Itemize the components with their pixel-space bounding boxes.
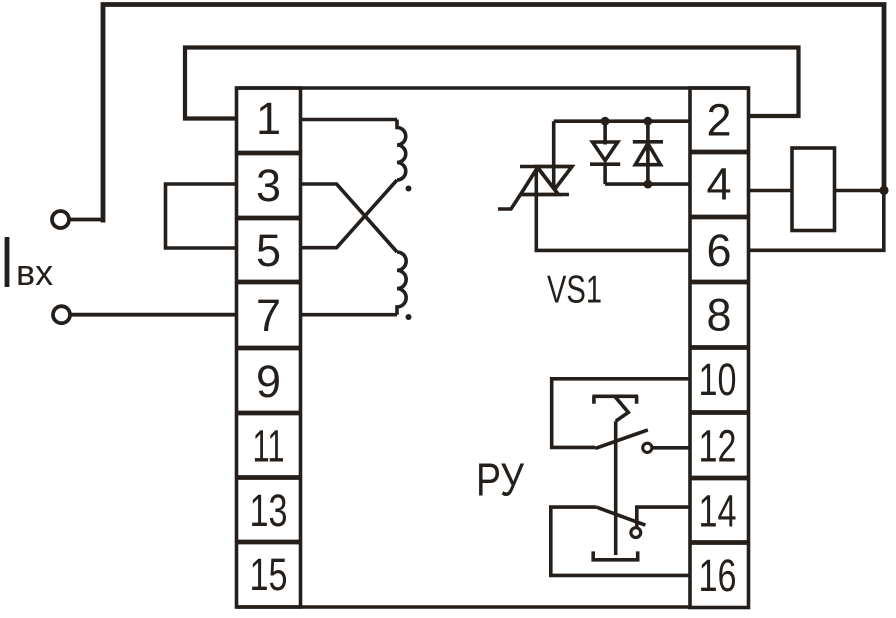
- cell separator 3/5: [237, 216, 301, 221]
- svg-text:11: 11: [253, 421, 285, 472]
- svg-text:VS1: VS1: [547, 269, 602, 312]
- wire contact to pin 12: [652, 446, 690, 450]
- svg-text:12: 12: [699, 421, 737, 472]
- transformer winding W2: [397, 252, 406, 315]
- resistor R1: [792, 148, 835, 231]
- triac MT1 lead and wire to pin 6: [536, 169, 690, 251]
- body top edge: [237, 86, 749, 90]
- terminal block column outline right: [690, 88, 749, 608]
- junction dot rail-VD2 bottom: [644, 180, 653, 189]
- wire terminal X2 to pin 7: [70, 313, 237, 317]
- diode VD2 triangle: [635, 144, 660, 165]
- svg-text:вх: вх: [16, 252, 53, 293]
- wire pin 6 to node A: [749, 190, 884, 250]
- wire pin3 with diagonal to winding W2: [301, 184, 398, 252]
- svg-text:5: 5: [256, 225, 281, 276]
- label Iвх : I bar: [5, 237, 10, 287]
- diode VD1 bottom lead: [603, 164, 607, 184]
- NO contact point circle upper: [643, 443, 652, 452]
- diode VD1 branch: [590, 121, 620, 184]
- diode VD2 branch: [633, 121, 663, 184]
- wire pin 10 to contact bracket: [552, 379, 690, 448]
- triac gate: [498, 195, 521, 210]
- cell separator 10/12: [690, 410, 749, 415]
- cell separator 12/14: [690, 476, 749, 481]
- diode VD2 anode bar: [633, 140, 663, 144]
- wire resistor R1 to node A: [835, 189, 885, 193]
- svg-text:2: 2: [706, 95, 731, 146]
- svg-text:8: 8: [706, 290, 731, 341]
- relay contact K1.2 lower: [551, 507, 690, 575]
- cell separator 7/9: [237, 346, 301, 351]
- svg-text:3: 3: [256, 160, 281, 211]
- cell separator 1/3: [237, 151, 301, 156]
- diode VD1 triangle: [593, 142, 618, 161]
- wire pin 4 to resistor R1: [749, 189, 793, 193]
- contact arm lower: [596, 507, 645, 525]
- triac VS1: [498, 121, 690, 250]
- svg-text:9: 9: [256, 356, 281, 407]
- wire terminal X1 to riser: [69, 218, 103, 222]
- svg-text:14: 14: [699, 486, 737, 537]
- fixed contact zigzag: [615, 396, 629, 421]
- cell separator 6/8: [690, 280, 749, 285]
- svg-text:15: 15: [250, 549, 288, 600]
- svg-text:13: 13: [250, 485, 288, 536]
- cell separator 8/10: [690, 345, 749, 350]
- body bottom edge: [237, 605, 691, 609]
- cell separator 11/13: [237, 475, 301, 480]
- cell separator 13/15: [237, 540, 301, 545]
- wire winding W2 to pin 7: [301, 313, 398, 317]
- triac triangle up: [521, 168, 559, 195]
- triac triangle down: [537, 167, 572, 190]
- wire shorting loop pin3 to pin5: [166, 184, 237, 248]
- svg-text:7: 7: [256, 290, 281, 341]
- terminal block column outline left: [237, 88, 301, 607]
- svg-text:1: 1: [256, 93, 281, 144]
- transformer winding W1: [397, 120, 406, 181]
- contact arm upper: [595, 430, 648, 449]
- pin box column right: [690, 88, 749, 608]
- cell separator 9/11: [237, 411, 301, 416]
- triac MT2 lead: [552, 121, 556, 188]
- input terminal X1: [52, 211, 69, 228]
- lower stop bracket: [593, 551, 638, 559]
- svg-text:6: 6: [706, 225, 731, 276]
- diode VD1 top lead: [603, 121, 607, 144]
- cell separator 2/4: [690, 150, 749, 155]
- mechanical link: [614, 421, 618, 555]
- node A junction dot: [879, 186, 888, 195]
- wire bracket to pin 16: [551, 507, 690, 575]
- wire pin 14 down to contact point: [637, 507, 690, 527]
- polarity dot W1: [406, 186, 412, 192]
- svg-text:16: 16: [699, 550, 737, 601]
- svg-text:РУ: РУ: [476, 454, 525, 506]
- cell separator 14/16: [690, 540, 749, 545]
- fixed contact bar upper: [592, 396, 638, 403]
- pin box column left: [237, 88, 301, 607]
- wire pin1 to transformer winding W1: [301, 118, 398, 122]
- junction dot rail-VD2 top: [644, 117, 653, 126]
- cell separator 5/7: [237, 280, 301, 285]
- NO contact point circle lower: [631, 528, 641, 538]
- diode VD1 cathode bar: [590, 162, 620, 166]
- relay contact K1.1 upper: [552, 379, 690, 555]
- svg-text:10: 10: [699, 354, 737, 405]
- wire top rail triac to pin 2: [554, 119, 690, 123]
- polarity dot W2: [406, 314, 412, 320]
- wire pin5 with diagonal to winding W1: [301, 180, 398, 248]
- triac top bar: [520, 165, 573, 169]
- cell separator 4/6: [690, 215, 749, 220]
- junction dot rail-VD1 top: [601, 117, 610, 126]
- diode VD2 top lead: [646, 121, 650, 184]
- wire input top loop: riser, top run, right drop to node A: [103, 5, 884, 223]
- svg-text:4: 4: [706, 159, 731, 210]
- wire diode bottom rail to pin 4: [605, 182, 690, 186]
- wire pin1 to pin2 outer loop: [185, 48, 799, 119]
- input terminal X2: [53, 306, 70, 323]
- triac bottom bar: [520, 193, 570, 197]
